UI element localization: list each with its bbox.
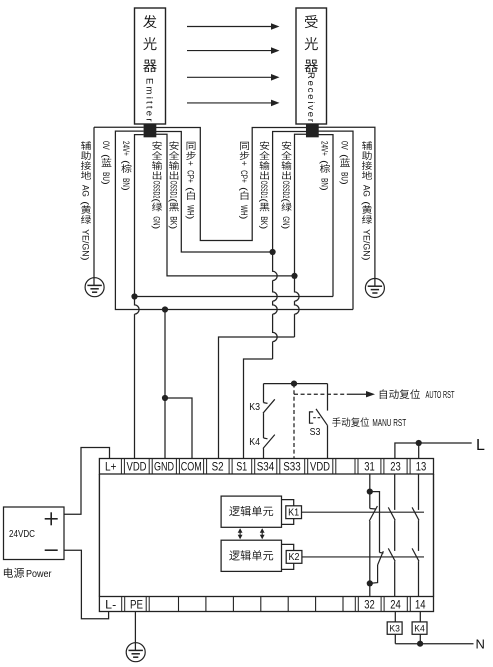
svg-text:(: ( — [81, 201, 91, 205]
svg-text:YE/GN: YE/GN — [362, 229, 372, 257]
K2 link stubs — [282, 544, 294, 569]
auto-reset arrow — [348, 393, 367, 395]
wire S3 to VDD terminal — [327, 425, 329, 458]
svg-text:K3: K3 — [389, 624, 400, 635]
wire between feedback contacts — [369, 521, 371, 583]
svg-text:+: + — [186, 161, 196, 166]
wire between K3 K4 — [263, 413, 265, 438]
label receiver OSSD1 — [260, 141, 269, 150]
svg-text:K3: K3 — [249, 401, 260, 413]
wire power - to L- — [64, 550, 109, 619]
svg-text:L+: L+ — [105, 460, 117, 474]
wire 0V link to receiver — [165, 309, 353, 311]
svg-text:K1: K1 — [288, 507, 299, 518]
svg-text:OSSD1: OSSD1 — [169, 181, 179, 199]
svg-text:BN: BN — [320, 178, 330, 187]
reset top rail — [264, 383, 328, 385]
wire 31 lead — [369, 474, 371, 492]
K1 actuation line — [302, 511, 425, 513]
svg-text:GN: GN — [152, 216, 162, 225]
svg-text:): ) — [239, 216, 249, 220]
power caption 电源 Power — [4, 568, 13, 578]
bottom terminal row dividers — [121, 597, 123, 612]
label emitter AG — [81, 141, 91, 150]
wire emitter OSSD1 — [156, 132, 273, 253]
N rail — [395, 643, 473, 645]
wire GND drop — [164, 310, 166, 459]
light beam arrow 1 — [187, 26, 272, 28]
ground symbol right AG — [365, 279, 384, 298]
svg-text:(: ( — [169, 198, 179, 202]
svg-text:WH: WH — [186, 205, 196, 215]
output contacts 23/24 (K1,K2 NO in series) — [394, 474, 396, 510]
svg-text:(: ( — [239, 187, 249, 191]
svg-text:Power: Power — [26, 568, 52, 580]
contact K4 (NC) — [264, 437, 268, 440]
node 0V junction — [162, 306, 168, 312]
svg-text:): ) — [81, 257, 91, 261]
svg-text:OSSD2: OSSD2 — [152, 181, 162, 199]
switch S3 arm — [316, 409, 327, 425]
light beam arrow 2 — [187, 50, 272, 52]
wire K4 to N rail — [419, 634, 421, 643]
svg-text:0V: 0V — [101, 141, 111, 150]
label emitter CP+ — [187, 142, 196, 150]
power box 24VDC — [4, 507, 65, 560]
wire K4 to S34 terminal — [263, 449, 265, 459]
svg-text:AUTO RST: AUTO RST — [426, 390, 455, 401]
logic link arrow 1 — [239, 529, 241, 538]
manual-reset label 手动复位 MANU RST — [332, 417, 341, 426]
ground symbol PE — [126, 643, 145, 662]
svg-text:S33: S33 — [283, 460, 301, 474]
svg-text:(: ( — [152, 198, 162, 202]
svg-text:(: ( — [281, 198, 291, 202]
svg-text:32: 32 — [364, 598, 375, 612]
wire emitter OSSD2 — [156, 134, 295, 276]
switch S3 upper lead — [327, 384, 329, 411]
emitter box — [135, 8, 166, 124]
logic unit 2 box — [221, 540, 281, 571]
auto-reset label 自动复位 AUTO RST — [380, 389, 387, 399]
svg-text:S1: S1 — [236, 460, 247, 474]
svg-text:): ) — [362, 257, 372, 261]
svg-text:(: ( — [186, 187, 196, 191]
node OSSD1 junction — [270, 249, 276, 255]
wire dot to K1 feedback contact — [369, 492, 371, 509]
dashed auto-reset line — [294, 393, 348, 395]
svg-text:): ) — [186, 216, 196, 220]
svg-text:): ) — [152, 225, 162, 229]
relay K1 box — [286, 506, 302, 519]
relay box left edge — [98, 474, 100, 597]
output contacts 13/14 (K1,K2 NO in series) — [418, 474, 420, 510]
svg-text:23: 23 — [390, 460, 401, 474]
svg-text:L-: L- — [105, 598, 116, 612]
relay coil K3 box — [387, 622, 402, 634]
logic link arrow 2 — [261, 529, 263, 538]
wire receiver OSSD1 to S1 — [273, 132, 306, 253]
K2 actuation line — [302, 556, 424, 558]
svg-text:31: 31 — [364, 460, 375, 474]
wire L to 23 — [395, 443, 472, 459]
svg-text:(: ( — [121, 160, 131, 164]
svg-text:24V+: 24V+ — [121, 141, 131, 156]
svg-text:K4: K4 — [414, 624, 425, 635]
dashed wire to S33 — [293, 384, 295, 459]
power + symbol — [45, 518, 58, 520]
node 24V+ junction — [131, 293, 137, 299]
label emitter OSSD2 — [152, 141, 161, 150]
logic unit 1 box — [221, 496, 281, 527]
svg-text:VDD: VDD — [310, 460, 330, 474]
svg-text:YE/GN: YE/GN — [81, 229, 91, 257]
svg-text:BN: BN — [121, 178, 131, 187]
svg-text:): ) — [101, 181, 111, 185]
node N junction — [417, 641, 423, 647]
receiver box — [296, 8, 327, 124]
contact K3 (NC) — [264, 402, 268, 405]
svg-text:S2: S2 — [212, 460, 224, 474]
receiver connector — [307, 125, 319, 137]
contact K2 feedback (NC) — [378, 551, 384, 565]
label receiver AG — [362, 141, 372, 150]
relay coil K4 box — [412, 622, 427, 634]
switch S3 button actuator — [310, 412, 314, 423]
top terminal row dividers — [120, 459, 122, 475]
svg-text:0V: 0V — [340, 141, 350, 150]
label emitter OSSD1 — [169, 141, 178, 150]
logic unit 1 label 逻辑单元 — [229, 506, 240, 516]
relay K2 box — [286, 551, 302, 564]
svg-text:K2: K2 — [289, 552, 300, 563]
svg-text:(: ( — [259, 198, 269, 202]
svg-text:(: ( — [101, 154, 111, 158]
svg-text:13: 13 — [416, 460, 427, 474]
svg-text:OSSD1: OSSD1 — [259, 181, 269, 199]
relay box right edge — [433, 474, 435, 597]
svg-text:): ) — [259, 225, 269, 229]
svg-text:): ) — [281, 225, 291, 229]
wire 32 lead — [369, 583, 371, 596]
wire L to 13 — [418, 443, 420, 459]
svg-text:AG: AG — [81, 185, 91, 197]
wire receiver OSSD2 to S2 — [295, 134, 307, 276]
emitter label 发光器 Emitter — [143, 15, 156, 28]
svg-text:S34: S34 — [257, 460, 275, 474]
bottom terminal row outline — [99, 597, 433, 612]
svg-text:(: ( — [320, 160, 330, 164]
svg-text:24: 24 — [390, 598, 401, 612]
wire 24 to K3 coil — [394, 612, 396, 622]
svg-text:(: ( — [340, 154, 350, 158]
svg-text:): ) — [340, 181, 350, 185]
ground symbol left AG — [85, 278, 104, 297]
wire emitter 24V+ — [135, 135, 144, 297]
wire K3 to N rail — [394, 634, 396, 643]
svg-text:14: 14 — [415, 598, 426, 612]
svg-text:24V+: 24V+ — [320, 141, 330, 156]
wire 14 to K4 coil — [419, 612, 421, 622]
svg-text:CP+: CP+ — [186, 170, 196, 183]
svg-text:BK: BK — [169, 216, 179, 225]
wire emitter AG + ground — [94, 126, 144, 128]
svg-text:COM: COM — [181, 460, 202, 474]
svg-text:MANU RST: MANU RST — [372, 418, 406, 429]
light beam arrow 4 — [187, 102, 272, 104]
wire receiver 24V+ — [319, 135, 334, 297]
svg-text:S3: S3 — [310, 426, 321, 438]
svg-text:BU: BU — [340, 172, 350, 181]
power - symbol — [45, 549, 58, 551]
svg-text:): ) — [320, 187, 330, 191]
wire CP+ sync U-link — [156, 128, 306, 241]
top terminal row outline — [99, 459, 433, 475]
receiver label 受光器 Receiver — [305, 15, 318, 28]
node reset rail junction — [291, 381, 297, 387]
wire VDD drop with hop — [135, 297, 140, 459]
svg-text:+: + — [239, 161, 249, 166]
svg-text:24VDC: 24VDC — [9, 529, 35, 540]
label receiver OSSD2 — [282, 141, 291, 150]
node L junction — [416, 440, 422, 446]
node 31 junction — [367, 489, 373, 495]
svg-text:Receiver: Receiver — [305, 72, 316, 122]
svg-text:K4: K4 — [249, 436, 260, 448]
svg-text:VDD: VDD — [127, 460, 147, 474]
svg-text:WH: WH — [239, 205, 249, 215]
svg-text:BU: BU — [101, 172, 111, 181]
wire emitter 0V — [115, 131, 165, 309]
svg-text:CP+: CP+ — [239, 170, 249, 183]
svg-text:L: L — [476, 437, 485, 454]
svg-text:OSSD2: OSSD2 — [281, 181, 291, 199]
logic unit 2 label 逻辑单元 — [229, 551, 240, 561]
wire S34 riser — [263, 384, 265, 403]
light beam arrow 3 — [187, 76, 272, 78]
svg-text:(: ( — [362, 201, 372, 205]
emitter connector — [144, 125, 156, 137]
wire receiver 0V — [319, 131, 354, 309]
feedback jog wire — [370, 492, 380, 553]
wire receiver AG + ground — [319, 127, 375, 286]
svg-text:AG: AG — [362, 185, 372, 197]
svg-text:Emitter: Emitter — [144, 78, 155, 122]
wire power + to L+ — [64, 448, 110, 515]
node COM tap — [162, 395, 168, 401]
wire COM link — [165, 398, 192, 459]
wire 24V+ link to receiver — [135, 296, 334, 298]
label receiver CP+ — [240, 142, 249, 150]
svg-text:BK: BK — [259, 216, 269, 225]
svg-text:PE: PE — [130, 598, 143, 612]
svg-text:): ) — [169, 225, 179, 229]
contact K1 feedback (NC) — [370, 508, 376, 511]
svg-text:GND: GND — [154, 460, 174, 474]
svg-text:GN: GN — [281, 216, 291, 225]
svg-text:N: N — [476, 637, 485, 652]
wire PE to ground — [134, 612, 136, 651]
node OSSD2 junction — [291, 273, 297, 279]
node 32 junction — [367, 580, 373, 586]
K1 link stubs — [282, 500, 294, 525]
svg-text:): ) — [121, 187, 131, 191]
